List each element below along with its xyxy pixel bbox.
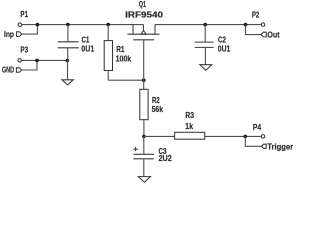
- svg-text:P1: P1: [20, 9, 28, 19]
- body connection drop: [142, 25, 144, 31]
- net flag Inp: [4, 29, 22, 39]
- junction drain rail / C2: [203, 23, 207, 27]
- channel bar: [127, 33, 159, 35]
- gate bar: [133, 39, 154, 41]
- source tap: [132, 25, 134, 35]
- body diode arrow: [141, 30, 146, 34]
- wire Out flag branch: [246, 25, 262, 35]
- svg-text:Q1: Q1: [139, 0, 146, 9]
- svg-text:2U2: 2U2: [159, 153, 173, 163]
- connector P3 (pin circle): [18, 59, 22, 63]
- drain tap: [154, 25, 156, 35]
- junction P3 / GND flag: [35, 59, 39, 63]
- svg-text:P3: P3: [20, 44, 28, 54]
- junction top rail / Inp: [36, 23, 40, 27]
- svg-text:Inp: Inp: [4, 29, 14, 39]
- wire Q1 drain to P2 (net Out): [155, 24, 261, 26]
- net flag Out: [261, 32, 266, 37]
- svg-text:P2: P2: [252, 9, 260, 19]
- connector P4 (pin circle): [261, 135, 265, 139]
- resistor R2: [140, 89, 148, 136]
- capacitor C2: [195, 25, 214, 65]
- junction top rail / C1: [66, 23, 70, 27]
- svg-text:GND: GND: [2, 65, 14, 75]
- junction GND rail / C1 bottom: [66, 59, 70, 63]
- svg-text:R1: R1: [116, 44, 125, 54]
- ground symbol (C3 branch): [138, 177, 150, 183]
- transistor Q1 (IRF9540 P-MOSFET): [127, 25, 159, 40]
- plus sign (C3 polarity): [134, 147, 138, 151]
- junction Trigger flag: [244, 135, 248, 139]
- capacitor C3 (polarized): [133, 136, 154, 176]
- connector P1 (pin circle): [18, 23, 22, 27]
- ground symbol (C1 branch): [62, 80, 73, 85]
- junction drain rail / Out flag: [244, 23, 248, 27]
- wire Inp flag to top rail: [22, 25, 38, 34]
- resistor R3: [175, 132, 205, 139]
- net flag GND: [16, 68, 21, 72]
- svg-text:Trigger: Trigger: [267, 142, 294, 152]
- wire P1 to Q1 source rail (net Inp): [22, 24, 143, 26]
- wire P3 to C1 ground node: [22, 59, 68, 61]
- wire junction to R3: [144, 135, 175, 137]
- wire C1 junction to ground: [67, 60, 69, 79]
- wire GND flag to P3 wire: [22, 60, 37, 70]
- connector P2 (pin circle): [261, 23, 265, 27]
- svg-text:R3: R3: [185, 110, 194, 120]
- junction gate node: [142, 78, 146, 82]
- ground symbol (C2 branch): [200, 65, 212, 71]
- svg-text:100k: 100k: [116, 54, 132, 64]
- wire R3 to P4 (net Trigger): [205, 135, 261, 137]
- resistor R1: [104, 25, 112, 81]
- svg-text:IRF9540: IRF9540: [125, 9, 163, 19]
- svg-text:Out: Out: [267, 30, 279, 40]
- wire Q1 gate down to R2: [143, 40, 145, 90]
- junction top rail / R1: [106, 23, 110, 27]
- junction R2 / R3 / C3: [142, 135, 146, 139]
- wire Trigger flag branch: [245, 136, 261, 146]
- wire R1 bottom to gate node: [108, 79, 144, 81]
- svg-text:P4: P4: [253, 122, 262, 132]
- net flag Trigger: [262, 144, 267, 148]
- capacitor C1: [58, 25, 79, 61]
- svg-text:0U1: 0U1: [218, 44, 231, 54]
- svg-text:0U1: 0U1: [81, 44, 94, 54]
- svg-text:1k: 1k: [185, 121, 193, 131]
- svg-text:56k: 56k: [152, 104, 164, 114]
